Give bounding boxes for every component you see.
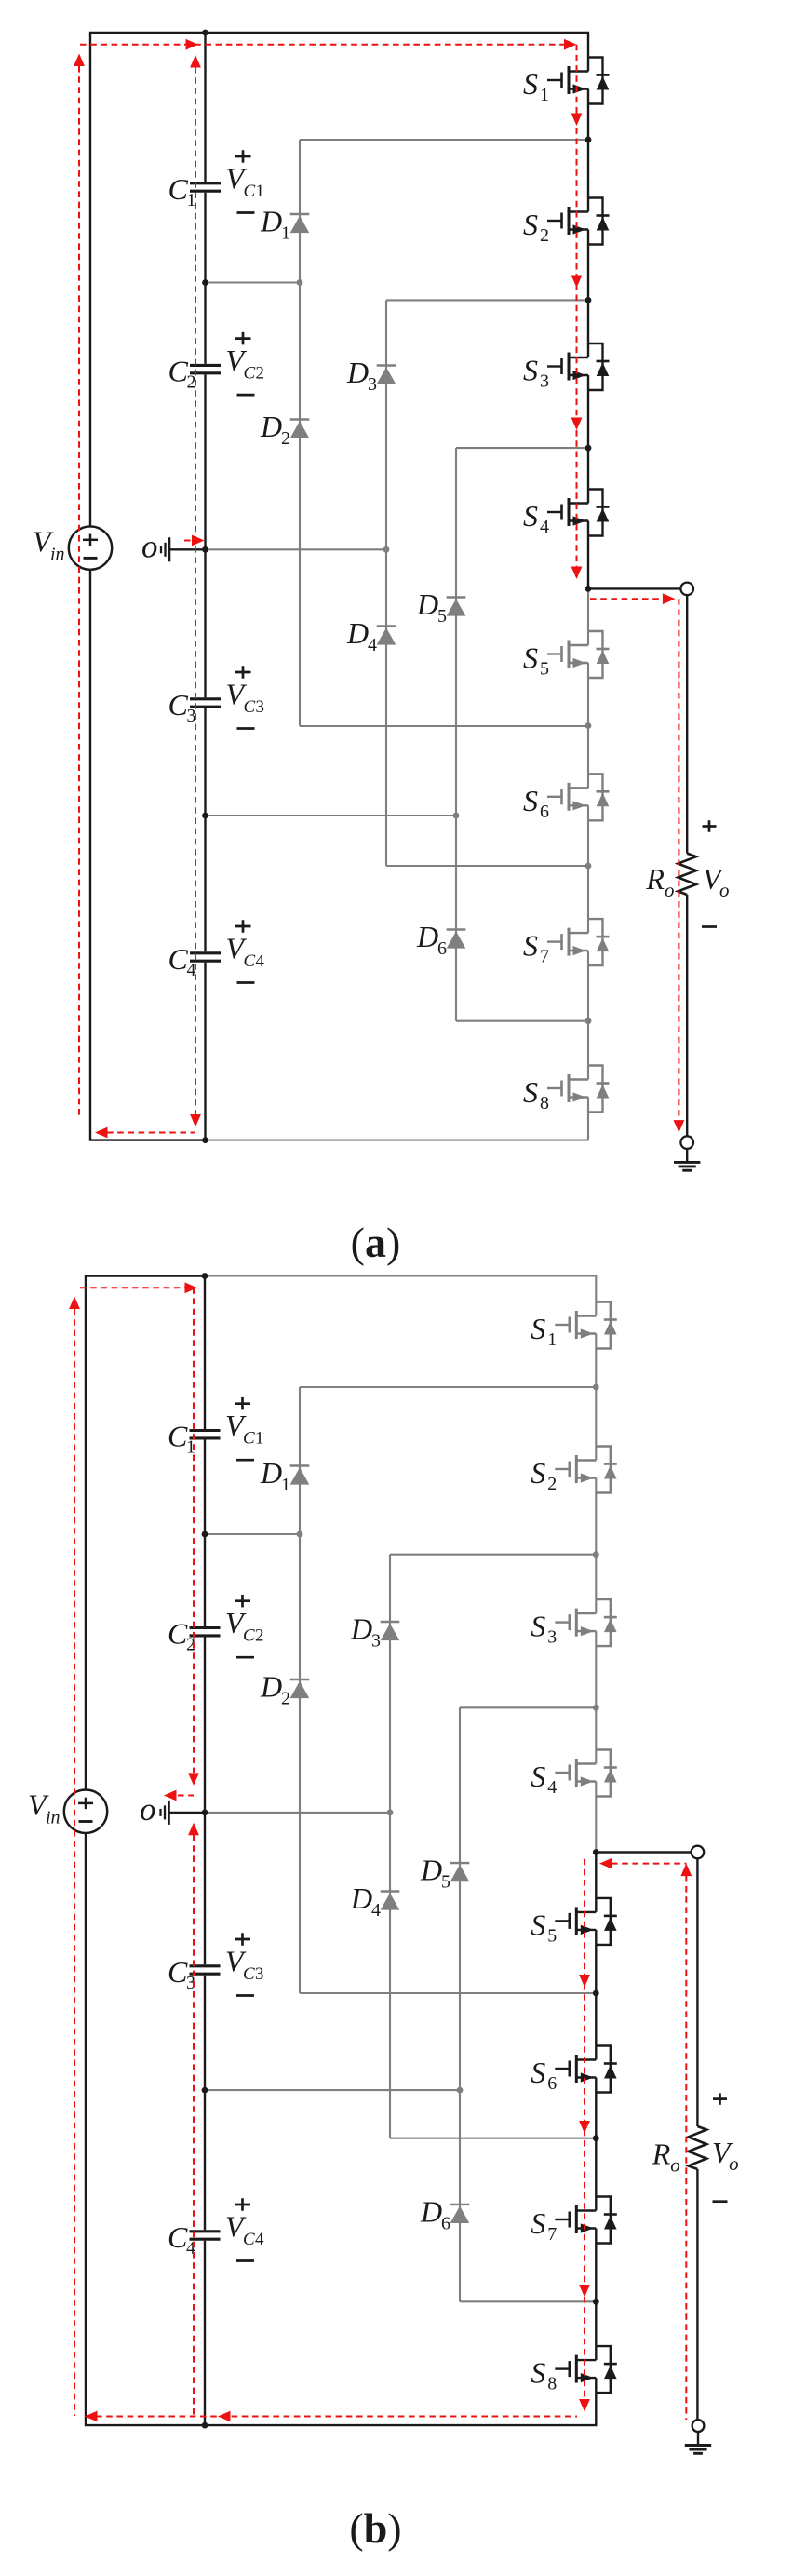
node: output junction (b) — [593, 1849, 599, 1855]
output ground terminal — [680, 1136, 693, 1149]
svg-text:6: 6 — [441, 2213, 450, 2233]
wire: output node to terminal (b) — [596, 1851, 691, 1853]
label Vo with polarity — [702, 820, 730, 926]
svg-text:S: S — [531, 1456, 545, 1490]
voltage source Vin — [33, 525, 112, 570]
wire: input left rail (b) — [85, 1276, 87, 1790]
diode D5 — [416, 587, 465, 627]
transistor S7 (MOSFET switch) — [523, 919, 610, 967]
wire: S2-S3 node horizontal (gray) — [386, 299, 588, 301]
node: S7-S8 junction — [585, 1018, 592, 1024]
current path: left return (red dashed) (b) — [74, 1309, 75, 2416]
current path: arrow into node o (b) — [178, 1795, 194, 1797]
svg-text:5: 5 — [437, 606, 447, 627]
output terminal (top) — [680, 583, 693, 596]
capacitor C3 — [168, 1955, 221, 1993]
svg-text:C: C — [168, 942, 189, 976]
svg-text:8: 8 — [547, 2374, 557, 2394]
capacitor C4 — [168, 2220, 221, 2259]
wire: S3-S4 node horizontal (b) — [460, 1706, 596, 1708]
label V_C1 with polarity — [225, 1397, 264, 1460]
capacitor C1 — [168, 172, 222, 210]
node: D1 column on C1-C2 wire — [297, 279, 303, 286]
diode D6 — [420, 2194, 469, 2233]
node: D5 column on C3-C4 wire (b) — [457, 2087, 464, 2094]
node: S5-S6 junction (b) — [593, 1990, 599, 1997]
diode D3 — [346, 356, 396, 395]
wire: capacitor ladder rail (b) — [204, 1276, 206, 1430]
svg-text:D: D — [346, 616, 369, 650]
current path: bottom return (red dashed) — [107, 1132, 195, 1134]
node: C3-C4 junction (b) — [202, 2087, 208, 2094]
wire: S3-S4 node horizontal (gray) — [456, 447, 588, 449]
svg-text:C: C — [243, 2230, 255, 2249]
svg-text:o: o — [141, 528, 158, 564]
capacitor C2 — [168, 355, 222, 393]
svg-text:4: 4 — [368, 635, 377, 655]
svg-text:D: D — [416, 920, 438, 953]
wire: switch rail gray segments S1-S4 (b) — [595, 1276, 597, 1316]
svg-text:1: 1 — [281, 1475, 290, 1495]
diode D6 — [416, 920, 465, 959]
svg-text:2: 2 — [256, 364, 265, 384]
svg-text:6: 6 — [547, 2073, 557, 2094]
svg-text:C: C — [244, 951, 256, 971]
svg-text:S: S — [531, 2356, 545, 2390]
svg-text:2: 2 — [281, 1689, 290, 1709]
svg-text:S: S — [531, 1760, 545, 1793]
svg-text:5: 5 — [441, 1872, 450, 1893]
current path: switch rail S5-S8 (red dashed) (b) — [584, 1859, 585, 2400]
svg-text:S: S — [531, 1610, 545, 1643]
node: bottom rail junction (b) — [202, 2422, 208, 2429]
transistor S6 (MOSFET switch) — [531, 2046, 617, 2095]
diode D4 — [350, 1881, 399, 1921]
wire: D3/D4 column vertical (b) — [389, 1555, 391, 2138]
svg-text:2: 2 — [540, 225, 549, 246]
output ground terminal (b) — [692, 2420, 705, 2432]
wire: S2-S3 node horizontal (b) — [390, 1554, 596, 1556]
node: o midpoint junction — [202, 546, 208, 553]
svg-text:S: S — [523, 499, 538, 533]
label V_C4 with polarity — [225, 2198, 264, 2260]
svg-text:D: D — [346, 356, 369, 389]
current path: arrow into node o — [184, 540, 202, 542]
current path: output to load (red dashed) — [590, 598, 663, 600]
wire: node o to D3/D4 column (gray) — [206, 548, 387, 550]
transistor S2 (MOSFET switch) — [531, 1447, 617, 1495]
wire: D3/D4 column bottom to S6-S7 node — [386, 865, 588, 867]
wire: D1/D2 column vertical (b) — [299, 1387, 301, 1993]
svg-text:C: C — [243, 1626, 255, 1646]
transistor S3 (MOSFET switch) — [531, 1599, 617, 1648]
wire: D3/D4 column vertical — [385, 300, 387, 866]
capacitor C1 — [168, 1420, 221, 1458]
svg-text:S: S — [523, 208, 538, 241]
svg-text:D: D — [350, 1881, 372, 1915]
diode D2 — [260, 1670, 309, 1709]
capacitor C3 — [168, 688, 222, 726]
svg-text:C: C — [168, 355, 189, 388]
svg-text:C: C — [244, 182, 256, 201]
svg-text:C: C — [244, 364, 256, 384]
svg-text:R: R — [645, 862, 665, 896]
svg-text:D: D — [416, 587, 438, 621]
label V_C2 with polarity — [226, 332, 265, 395]
node: D3 column on o wire (b) — [387, 1810, 394, 1816]
svg-text:4: 4 — [540, 517, 549, 537]
svg-text:D: D — [260, 1456, 282, 1490]
svg-text:4: 4 — [547, 1777, 557, 1798]
transistor S6 (MOSFET switch) — [523, 774, 610, 822]
current path: capacitor rail (red dashed) — [195, 67, 196, 1114]
node: S1-S2 junction — [585, 137, 592, 143]
svg-text:4: 4 — [256, 951, 265, 971]
node: top rail junction (b) — [202, 1273, 208, 1279]
node: C3-C4 junction — [202, 813, 208, 819]
svg-text:C: C — [244, 697, 256, 717]
wire: input left rail top — [89, 33, 91, 526]
ground — [674, 1149, 700, 1170]
wire: D5/D6 column bottom to S7-S8 node — [456, 1020, 588, 1022]
node: S2-S3 junction (b) — [593, 1551, 599, 1558]
node: bottom rail junction — [202, 1137, 208, 1143]
transistor S8 (MOSFET switch) — [523, 1066, 610, 1114]
svg-text:4: 4 — [255, 2230, 264, 2249]
wire: S1-S2 node horizontal (gray) — [300, 139, 588, 141]
svg-text:C: C — [168, 172, 189, 206]
output terminal (b) — [692, 1846, 705, 1859]
node: S3-S4 junction — [585, 445, 592, 452]
wire: bottom horizontal (b) — [85, 2424, 598, 2426]
wire: output rail (b) — [696, 1858, 698, 2126]
node: C1-C2 junction (b) — [202, 1531, 208, 1538]
node: top rail junction — [202, 30, 208, 36]
node: S5-S6 junction — [585, 722, 592, 729]
capacitor C2 — [168, 1617, 221, 1655]
resistor Ro — [645, 854, 696, 901]
svg-text:D: D — [350, 1612, 372, 1646]
svg-text:(b): (b) — [349, 2504, 401, 2552]
svg-text:D: D — [420, 1854, 442, 1887]
transistor S7 (MOSFET switch) — [531, 2197, 617, 2246]
svg-text:C: C — [168, 1955, 188, 1989]
svg-text:3: 3 — [255, 1964, 264, 1984]
node: D5 column on C3-C4 wire — [453, 813, 460, 819]
wire: output node to terminal — [588, 587, 680, 589]
svg-text:3: 3 — [368, 374, 377, 395]
svg-text:4: 4 — [371, 1900, 381, 1921]
svg-text:S: S — [523, 67, 538, 101]
label Vo with polarity (b) — [712, 2093, 739, 2201]
svg-text:2: 2 — [547, 1474, 557, 1494]
current path: load rail up (red dashed) (b) — [685, 1876, 687, 2420]
svg-text:2: 2 — [255, 1626, 264, 1646]
node: S7-S8 junction (b) — [593, 2299, 599, 2305]
wire: switch rail black segments S5-S8 (b) — [595, 1853, 597, 1912]
svg-text:8: 8 — [540, 1093, 549, 1113]
node: S2-S3 junction — [585, 297, 592, 303]
svg-text:C: C — [168, 1420, 188, 1453]
wire: D5/D6 column vertical (b) — [459, 1707, 461, 2301]
svg-text:o: o — [140, 1791, 156, 1827]
svg-text:5: 5 — [547, 1925, 557, 1946]
ground (b) — [685, 2432, 711, 2453]
svg-text:3: 3 — [540, 371, 549, 392]
node: S1-S2 junction (b) — [593, 1384, 599, 1391]
transistor S5 (MOSFET switch) — [531, 1898, 617, 1946]
svg-text:(a): (a) — [351, 1219, 401, 1266]
svg-text:3: 3 — [256, 697, 265, 717]
svg-text:D: D — [420, 2194, 442, 2228]
svg-text:1: 1 — [255, 1429, 264, 1449]
svg-text:D: D — [260, 410, 282, 443]
node: C1-C2 junction — [202, 279, 208, 286]
diode D5 — [420, 1854, 469, 1893]
svg-text:C: C — [168, 1617, 188, 1651]
diode D3 — [350, 1612, 399, 1652]
current path: capacitor rail lower (red dashed) (b) — [193, 1835, 195, 2417]
svg-text:o: o — [670, 2154, 680, 2177]
svg-text:D: D — [260, 1670, 282, 1704]
svg-text:o: o — [729, 2152, 739, 2175]
wire: D3/D4 column bottom to S6-S7 node (b) — [390, 2138, 596, 2139]
node: S6-S7 junction (b) — [593, 2135, 599, 2141]
transistor S5 (MOSFET switch) — [523, 631, 610, 680]
svg-text:3: 3 — [547, 1627, 557, 1648]
svg-text:1: 1 — [281, 223, 290, 244]
wire: switch rail black segments (S1-S4 on-path) — [587, 33, 589, 72]
svg-text:o: o — [719, 879, 730, 901]
capacitor C4 — [168, 942, 222, 980]
svg-text:1: 1 — [547, 1329, 557, 1350]
svg-text:5: 5 — [540, 659, 549, 680]
svg-text:3: 3 — [371, 1631, 381, 1652]
svg-text:o: o — [665, 879, 675, 901]
node: S3-S4 junction (b) — [593, 1705, 599, 1711]
node: D1 column on C1-C2 wire (b) — [297, 1531, 303, 1538]
svg-text:S: S — [531, 1908, 545, 1941]
wire: D1/D2 column bottom to S5-S6 node (b) — [300, 1992, 596, 1994]
svg-text:S: S — [523, 354, 538, 387]
diode D4 — [346, 616, 396, 655]
current path: bottom return (red dashed) (b) — [96, 2416, 577, 2418]
svg-text:R: R — [652, 2138, 671, 2171]
wire: D5/D6 column vertical — [455, 448, 457, 1021]
wire: top horizontal left (b) — [85, 1275, 205, 1276]
wire: node o to D3/D4 column (b) — [205, 1812, 390, 1814]
svg-text:6: 6 — [437, 938, 447, 959]
diode D1 — [260, 1456, 309, 1495]
resistor Ro (b) — [652, 2126, 707, 2177]
wire: D1/D2 column bottom to S5-S6 node — [300, 725, 588, 727]
wire: top horizontal right gray (b) — [205, 1275, 597, 1276]
node o (neutral point terminal) — [141, 528, 206, 564]
wire: capacitor ladder rail — [204, 33, 206, 182]
svg-text:S: S — [531, 2206, 545, 2240]
svg-text:D: D — [260, 205, 282, 238]
label V_C3 with polarity — [226, 666, 265, 728]
label V_C1 with polarity — [226, 150, 265, 212]
current path: top short horizontal (red dashed) (b) — [80, 1287, 185, 1288]
node o (neutral point terminal) (b) — [140, 1791, 205, 1827]
current path: output top horizontal (red dashed) (b) — [612, 1863, 686, 1865]
current path: capacitor rail upper (red dashed) (b) — [193, 1288, 195, 1773]
wire: C3-C4 node to D5/D6 column (gray) — [206, 815, 457, 816]
wire: D1/D2 column vertical — [299, 140, 301, 726]
wire: C1-C2 node to D1/D2 column (b) — [205, 1533, 300, 1535]
transistor S4 (MOSFET switch) — [523, 490, 610, 538]
transistor S4 (MOSFET switch) — [531, 1750, 617, 1799]
transistor S8 (MOSFET switch) — [531, 2346, 617, 2394]
svg-text:C: C — [243, 1429, 255, 1449]
node: output junction — [585, 586, 592, 592]
diode D1 — [260, 205, 309, 244]
wire: C3-C4 node to D5/D6 column (b) — [205, 2089, 460, 2091]
transistor S1 (MOSFET switch) — [531, 1302, 617, 1351]
wire: top horizontal — [89, 32, 589, 34]
wire: D5/D6 column bottom to S7-S8 node (b) — [460, 2300, 596, 2302]
node: S6-S7 junction — [585, 863, 592, 870]
svg-text:S: S — [523, 641, 538, 675]
node: o midpoint junction (b) — [202, 1810, 208, 1816]
svg-text:in: in — [46, 1808, 60, 1828]
wire: bottom horizontal (left black part) — [89, 1139, 206, 1140]
svg-text:1: 1 — [256, 182, 265, 201]
wire: S1-S2 node horizontal (b) — [300, 1386, 596, 1388]
svg-text:7: 7 — [547, 2224, 557, 2245]
svg-text:1: 1 — [540, 85, 549, 105]
node: D3 column on o wire — [383, 546, 390, 553]
diode D2 — [260, 410, 309, 449]
current path: switch rail (red dashed) — [576, 45, 578, 569]
transistor S2 (MOSFET switch) — [523, 198, 610, 247]
svg-text:S: S — [523, 1075, 538, 1109]
transistor S3 (MOSFET switch) — [523, 344, 610, 392]
svg-text:C: C — [168, 2220, 188, 2254]
svg-text:2: 2 — [281, 428, 290, 449]
svg-text:S: S — [523, 784, 538, 817]
svg-text:S: S — [523, 929, 538, 963]
current path: top horizontal (red dashed) — [80, 44, 565, 46]
svg-text:in: in — [50, 545, 65, 565]
svg-text:C: C — [168, 688, 189, 722]
wire: bottom horizontal to S8 source (gray) — [206, 1140, 589, 1141]
wire: output rail — [686, 595, 688, 853]
label V_C4 with polarity — [226, 920, 265, 982]
wire: switch rail gray segments (S5-S8 off-path) — [587, 588, 589, 645]
svg-text:S: S — [531, 1312, 545, 1345]
svg-text:6: 6 — [540, 802, 549, 822]
svg-text:C: C — [243, 1964, 255, 1984]
label V_C3 with polarity — [225, 1933, 264, 1995]
transistor S1 (MOSFET switch) — [523, 58, 610, 106]
wire: C1-C2 node to D1/D2 column (gray) — [206, 281, 301, 283]
voltage source Vin (b) — [28, 1788, 107, 1833]
svg-text:7: 7 — [540, 947, 549, 967]
current path: left return (red dashed) — [78, 66, 80, 1117]
label V_C2 with polarity — [225, 1595, 264, 1657]
svg-text:S: S — [531, 2056, 545, 2089]
